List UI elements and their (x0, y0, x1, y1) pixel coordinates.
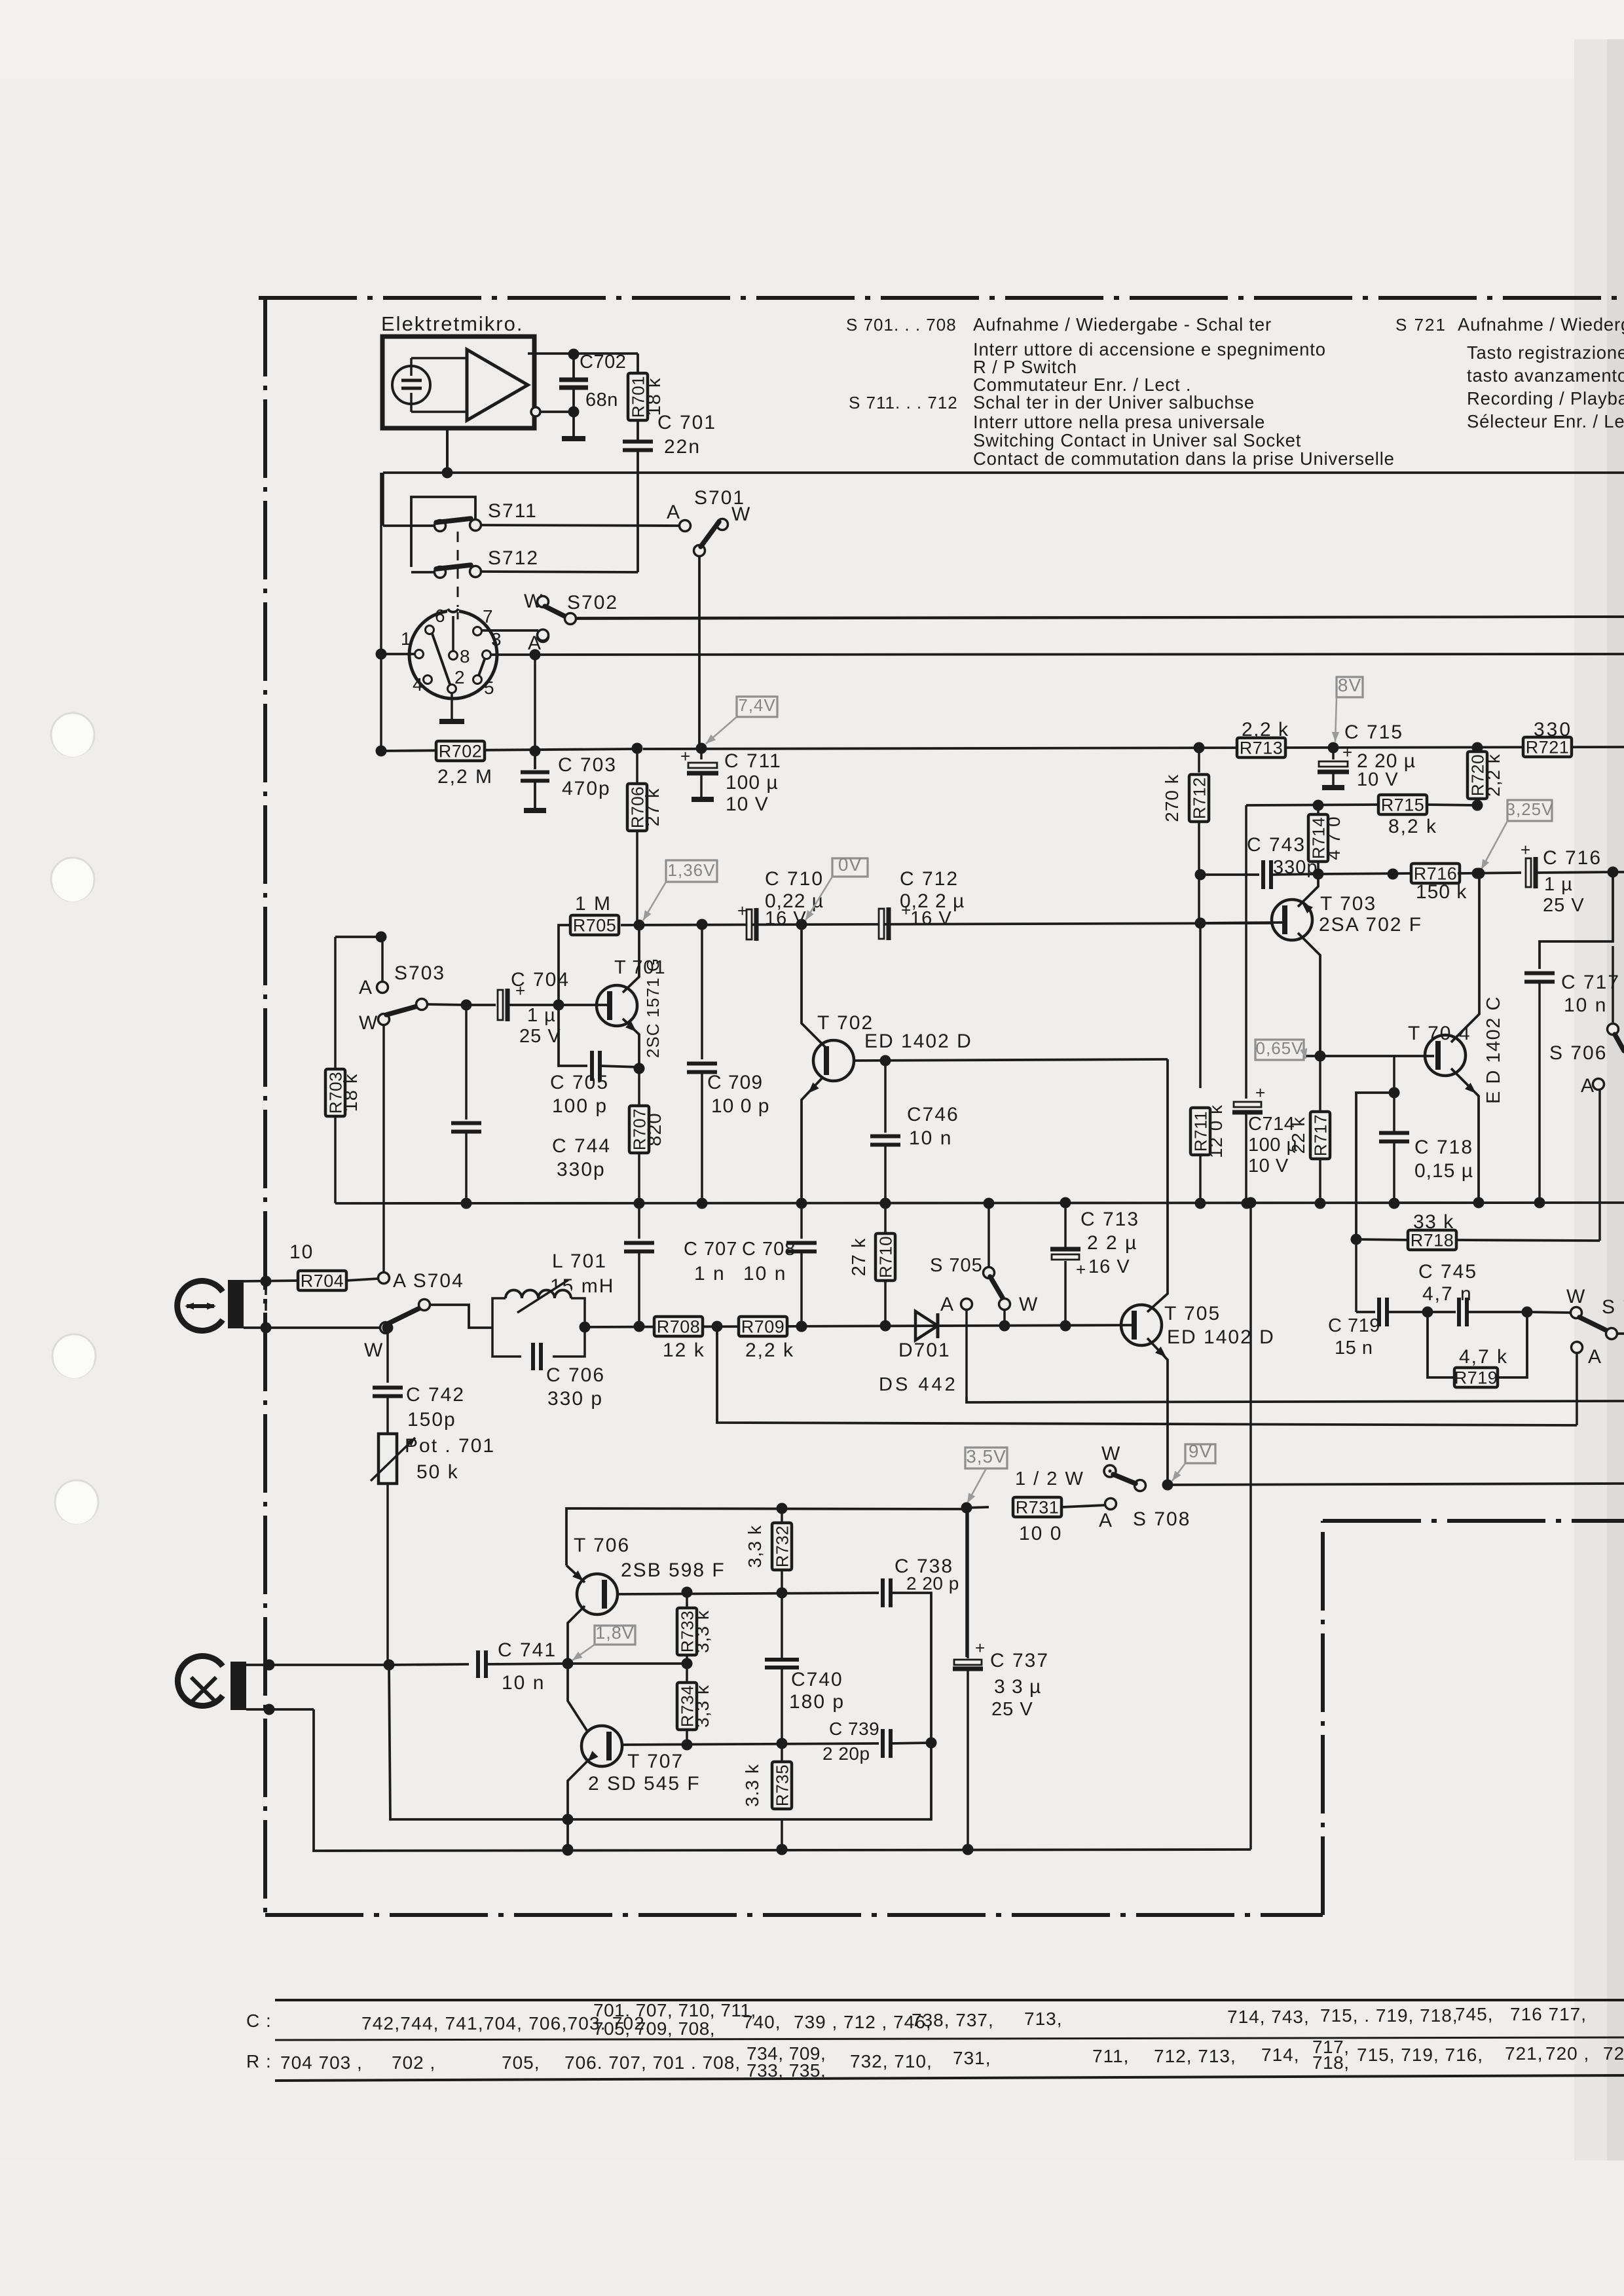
wire left rail (380, 473, 382, 751)
svg-text:C 701: C 701 (657, 412, 716, 433)
wire row to R716 (1318, 873, 1414, 874)
svg-text:D701: D701 (898, 1339, 951, 1361)
svg-text:2 2 µ: 2 2 µ (1087, 1232, 1137, 1254)
svg-text:270 k: 270 k (1162, 774, 1182, 822)
svg-text:150 k: 150 k (1416, 881, 1467, 903)
wire S703 to C704 (427, 1004, 466, 1005)
svg-text:1 M: 1 M (575, 893, 612, 915)
capacitor C718 (1393, 1056, 1395, 1091)
svg-text:738, 737,: 738, 737, (912, 2010, 994, 2030)
resistor R707 (638, 1068, 640, 1106)
DIN pin 8 (449, 651, 458, 660)
resistor R717 (1319, 1056, 1321, 1112)
T707 emitter (568, 1759, 589, 1846)
mechanical link S711-S712 (dashed) (457, 532, 459, 612)
resistor R706 (631, 748, 637, 750)
wire mid rail (335, 1203, 1624, 1203)
svg-text:S712: S712 (488, 547, 539, 569)
connector remote jack (177, 1281, 223, 1331)
svg-text:715, 719, 716,: 715, 719, 716, (1357, 2045, 1483, 2065)
wire mic output bottom (531, 407, 540, 416)
node 3,5V callout (965, 1448, 1007, 1468)
svg-text:Pot . 701: Pot . 701 (405, 1435, 495, 1457)
wire X tip (246, 1664, 390, 1666)
svg-text:ED 1402 D: ED 1402 D (864, 1030, 972, 1052)
capacitor C719 (1355, 1244, 1357, 1312)
node 1,8V callout (595, 1626, 635, 1645)
svg-text:10 n: 10 n (1564, 994, 1607, 1016)
svg-text:S 711. . . 712: S 711. . . 712 (849, 393, 958, 412)
T706 collector (568, 1606, 585, 1658)
wire mic output top (528, 352, 638, 355)
svg-text:10 0 p: 10 0 p (711, 1095, 769, 1117)
svg-text:705,: 705, (502, 2052, 540, 2073)
node 7,4V callout (737, 697, 777, 717)
DIN pin 7 (473, 627, 482, 636)
svg-text:712, 713,: 712, 713, (1154, 2046, 1236, 2066)
wire R705 left to base node (559, 925, 570, 1000)
resistor R715 row (1246, 805, 1380, 805)
svg-text:150p: 150p (407, 1409, 456, 1430)
svg-text:A: A (940, 1294, 955, 1315)
svg-text:A: A (359, 977, 373, 998)
svg-text:C 715: C 715 (1344, 721, 1403, 743)
svg-text:S703: S703 (394, 962, 445, 984)
wire 0,65V row (1303, 1055, 1434, 1057)
svg-text:C 703: C 703 (558, 754, 617, 776)
capacitor C711 (700, 748, 703, 759)
svg-text:C746: C746 (907, 1104, 959, 1125)
svg-text:10 V: 10 V (1357, 769, 1399, 790)
svg-text:C 716: C 716 (1543, 847, 1602, 869)
node 9V callout (1185, 1444, 1215, 1463)
svg-text:S 721: S 721 (1395, 315, 1447, 335)
svg-text:3,3 k: 3,3 k (692, 1610, 712, 1653)
T706 emitter (566, 1565, 585, 1582)
wire C716 row to right edge (1613, 871, 1624, 873)
wire 9V row (1168, 1484, 1624, 1485)
resistor R720 (1472, 742, 1483, 754)
switch S707 (1527, 1312, 1572, 1313)
svg-text:R719: R719 (1454, 1368, 1498, 1388)
svg-text:W: W (731, 503, 751, 525)
svg-text:22n: 22n (664, 436, 701, 458)
svg-text:R709: R709 (741, 1317, 785, 1337)
wire connector sleeve (244, 1326, 381, 1329)
svg-text:C714: C714 (1248, 1114, 1295, 1135)
svg-text:10 V: 10 V (1248, 1156, 1289, 1176)
svg-text:R702: R702 (439, 742, 483, 761)
svg-text:731,: 731, (953, 2048, 991, 2068)
svg-text:R731: R731 (1016, 1498, 1060, 1518)
svg-text:7: 7 (483, 606, 494, 627)
svg-text:8,2 k: 8,2 k (1388, 816, 1437, 837)
svg-text:C 719: C 719 (1328, 1315, 1380, 1336)
resistor R733 (682, 1587, 693, 1598)
wire S702 row (574, 617, 1624, 618)
svg-text:2SB 598 F: 2SB 598 F (621, 1559, 726, 1581)
connector X jack (177, 1656, 223, 1706)
svg-text:9V: 9V (1189, 1441, 1212, 1461)
svg-text:T 706: T 706 (574, 1535, 630, 1556)
svg-text:3 3 µ: 3 3 µ (994, 1676, 1041, 1698)
svg-text:100 µ: 100 µ (1248, 1135, 1298, 1156)
svg-text:718,: 718, (1312, 2052, 1350, 2073)
svg-text:4: 4 (413, 674, 424, 695)
svg-text:733, 735,: 733, 735, (747, 2060, 826, 2081)
svg-text:S 705: S 705 (930, 1255, 983, 1276)
svg-text:3.3 k: 3.3 k (742, 1764, 762, 1807)
svg-text:C 741: C 741 (498, 1639, 557, 1661)
T706/T707 base coupling (568, 1669, 588, 1732)
svg-text:A: A (1099, 1510, 1113, 1531)
capacitor C716 (1526, 858, 1531, 887)
svg-text:8: 8 (460, 646, 471, 666)
svg-text:A: A (667, 501, 681, 523)
svg-text:R :: R : (246, 2051, 272, 2071)
T704 emitter (1451, 1068, 1479, 1198)
mech link dashed to socket (457, 612, 459, 619)
capacitor C712 (879, 909, 884, 939)
capacitor C746 (884, 1061, 887, 1133)
wire R712 to R711 (1199, 923, 1202, 1088)
svg-text:Aufnahme / Wiedergabe - Schal: Aufnahme / Wiedergabe - Schal ter (973, 314, 1272, 335)
svg-text:C 705: C 705 (550, 1072, 609, 1093)
svg-text:1 µ: 1 µ (527, 1005, 556, 1026)
DIN pin 2 (448, 685, 456, 693)
svg-text:15 n: 15 n (1335, 1338, 1373, 1358)
svg-text:C 712: C 712 (900, 868, 959, 890)
svg-text:+: + (1076, 1260, 1086, 1279)
svg-text:330p: 330p (557, 1159, 606, 1180)
svg-text:721,: 721, (1505, 2043, 1543, 2064)
wire T701 base (564, 1004, 610, 1006)
DIN switch blade 6-2 (432, 634, 450, 684)
svg-text:10 n: 10 n (743, 1263, 786, 1285)
svg-text:2 20 p: 2 20 p (906, 1573, 959, 1594)
T705 collector (1147, 1285, 1168, 1312)
svg-text:12 k: 12 k (663, 1339, 705, 1361)
DIN pin 5 (473, 676, 482, 684)
resistor R714 (1313, 800, 1324, 811)
svg-text:Switching Contact in Univer s: Switching Contact in Univer sal Socket (973, 430, 1301, 450)
svg-text:25 V: 25 V (1543, 895, 1585, 916)
diode D701 (915, 1311, 938, 1340)
svg-text:720 ,: 720 , (1545, 2043, 1589, 2064)
svg-text:1,8V: 1,8V (595, 1623, 635, 1643)
svg-text:10 n: 10 n (502, 1672, 545, 1694)
node 0V callout (832, 858, 868, 877)
svg-text:C 742: C 742 (406, 1384, 465, 1406)
svg-text:S 708: S 708 (1133, 1508, 1190, 1530)
potentiometer Pot 701 (378, 1434, 397, 1484)
svg-text:4 7 0: 4 7 0 (1323, 816, 1344, 860)
node 0,65V callout (1255, 1040, 1304, 1060)
wire S711-S712 link loop (411, 497, 475, 567)
resistor R710 (880, 1198, 891, 1209)
svg-text:1 / 2 W: 1 / 2 W (1015, 1468, 1084, 1489)
wire 1,8V row (568, 1662, 687, 1665)
svg-text:C 711: C 711 (724, 750, 782, 772)
svg-text:2 SD 545 F: 2 SD 545 F (588, 1773, 701, 1795)
svg-text:Recording / Playback /: Recording / Playback / (1467, 388, 1624, 409)
svg-text:Tasto registrazione / t: Tasto registrazione / t (1467, 342, 1624, 363)
svg-text:C740: C740 (791, 1669, 843, 1690)
resistor R711 (1190, 1108, 1210, 1155)
capacitor C707 (638, 1203, 640, 1239)
svg-text:470p: 470p (562, 778, 611, 799)
svg-text:330p: 330p (1273, 857, 1318, 878)
svg-text:+: + (1342, 742, 1352, 762)
svg-text:72: 72 (1603, 2043, 1624, 2064)
svg-text:1: 1 (401, 629, 412, 649)
capacitor C703 (534, 751, 536, 769)
svg-text:0,15 µ: 0,15 µ (1414, 1160, 1473, 1182)
svg-text:R705: R705 (573, 916, 617, 936)
wire DIN pin7 to A terminal (482, 629, 538, 632)
svg-text:713,: 713, (1024, 2009, 1063, 2029)
resistor R703 (334, 937, 337, 1069)
svg-text:0,65V: 0,65V (1256, 1038, 1304, 1058)
svg-text:2,2 k: 2,2 k (745, 1339, 794, 1361)
svg-text:L 701: L 701 (552, 1250, 607, 1272)
svg-text:7,4V: 7,4V (738, 695, 776, 715)
svg-text:3: 3 (491, 629, 502, 649)
wire T702 collector to T705 (1166, 1059, 1169, 1285)
resistor R734 (686, 1664, 688, 1683)
T701 collector (623, 930, 639, 993)
svg-text:6: 6 (435, 606, 446, 626)
wire D701 row (585, 1325, 1135, 1327)
wire X sleeve (246, 1708, 314, 1711)
DIN switch blade 3-5 (479, 659, 485, 676)
resistor R719 bypass (1428, 1312, 1455, 1377)
svg-text:Elektretmikro.: Elektretmikro. (381, 312, 523, 335)
svg-text:R716: R716 (1414, 864, 1458, 884)
wire S711 to S701 (481, 525, 680, 526)
svg-text:2,2 M: 2,2 M (437, 766, 493, 788)
svg-text:+: + (737, 901, 747, 920)
DIN pin2 ground (451, 693, 453, 720)
svg-text:W: W (1101, 1443, 1121, 1465)
wire DIN pin3 to R702 row (534, 655, 536, 751)
capacitor C714 (1234, 1102, 1261, 1107)
svg-text:+: + (975, 1638, 985, 1658)
svg-text:W: W (1019, 1294, 1039, 1315)
wire R735 bottom to rail (781, 1819, 783, 1850)
node 3,25V callout (1507, 800, 1552, 821)
svg-text:C 710: C 710 (765, 868, 824, 890)
svg-text:745,: 745, (1455, 2004, 1494, 2024)
component index table (275, 1999, 1624, 2001)
capacitor C717 (1540, 872, 1613, 969)
svg-text:704 703 ,: 704 703 , (280, 2052, 363, 2073)
DIN pin 1 (415, 650, 424, 659)
capacitor C740 (781, 1593, 783, 1659)
svg-text:702 ,: 702 , (392, 2052, 435, 2073)
wire S701 to 8V row (698, 556, 701, 748)
svg-text:740,: 740, (743, 2012, 781, 2032)
wire oscillator top rail (965, 1513, 968, 1657)
svg-text:180 p: 180 p (789, 1691, 845, 1713)
svg-text:S702: S702 (567, 592, 618, 613)
svg-text:T 707: T 707 (627, 1751, 684, 1772)
svg-text:R704: R704 (301, 1271, 344, 1291)
node 8V callout (1337, 677, 1363, 697)
svg-text:705, 709, 708,: 705, 709, 708, (593, 2018, 715, 2039)
svg-text:DS 442: DS 442 (879, 1374, 958, 1395)
svg-text:50 k: 50 k (416, 1461, 459, 1483)
capacitor C706 (521, 1343, 553, 1370)
svg-text:100 µ: 100 µ (726, 772, 779, 793)
capacitor C701 (623, 440, 653, 444)
T703 emitter (1298, 879, 1318, 907)
svg-text:C :: C : (246, 2011, 272, 2031)
svg-text:5: 5 (484, 678, 495, 698)
wire C743/R716 row (1200, 873, 1248, 876)
svg-text:R713: R713 (1240, 738, 1283, 758)
svg-text:18 k: 18 k (644, 378, 665, 416)
svg-text:+: + (680, 746, 690, 766)
svg-text:12 0 k: 12 0 k (1206, 1104, 1226, 1158)
resistor R716 (1411, 864, 1460, 883)
svg-text:C 713: C 713 (1080, 1209, 1139, 1230)
capacitor C713 (1060, 1197, 1071, 1209)
svg-text:R732: R732 (773, 1525, 792, 1567)
svg-text:27 k: 27 k (642, 788, 663, 827)
svg-text:S 706: S 706 (1549, 1042, 1607, 1064)
T705 emitter (1147, 1338, 1168, 1485)
svg-text:732, 710,: 732, 710, (850, 2051, 932, 2071)
svg-text:T 705: T 705 (1164, 1303, 1221, 1324)
svg-text:2,2 k: 2,2 k (1483, 754, 1504, 797)
svg-text:25 V: 25 V (519, 1026, 561, 1047)
resistors R708 R709 row (654, 1317, 703, 1336)
capacitor C710 (747, 909, 752, 939)
capacitor C708 (800, 1203, 803, 1239)
DIN pin 3 (483, 651, 491, 659)
DIN universal socket (409, 611, 497, 699)
svg-text:tasto avanzamento v: tasto avanzamento v (1467, 365, 1624, 386)
svg-text:2: 2 (454, 667, 466, 687)
svg-text:R715: R715 (1381, 795, 1425, 815)
svg-text:R712: R712 (1190, 777, 1209, 819)
svg-text:S 7: S 7 (1602, 1296, 1624, 1318)
svg-text:C 707: C 707 (684, 1239, 737, 1260)
svg-text:R721: R721 (1526, 738, 1570, 757)
wire DIN pin1 to left rail (381, 653, 415, 655)
svg-text:10 0: 10 0 (1019, 1523, 1062, 1544)
wire main bus (mic supply rail) (383, 471, 1624, 474)
svg-text:C 737: C 737 (990, 1650, 1049, 1671)
svg-text:716 717,: 716 717, (1510, 2004, 1587, 2024)
svg-text:R710: R710 (876, 1236, 896, 1278)
svg-text:C 739: C 739 (829, 1719, 879, 1739)
svg-text:714, 743,: 714, 743, (1227, 2007, 1310, 2027)
svg-text:706. 707, 701 . 708,: 706. 707, 701 . 708, (564, 2052, 741, 2073)
capacitor C705 (559, 1010, 587, 1066)
T704 collector (1451, 878, 1479, 1042)
svg-text:R708: R708 (657, 1317, 701, 1337)
svg-text:1 n: 1 n (694, 1263, 726, 1285)
svg-text:C 718: C 718 (1414, 1137, 1473, 1158)
resistor R702 (436, 741, 485, 761)
wire S712 row to C701 (481, 572, 638, 572)
svg-text:27 k: 27 k (849, 1238, 870, 1277)
svg-text:C 708: C 708 (742, 1239, 796, 1260)
svg-text:18 k: 18 k (341, 1074, 361, 1112)
wire S707 A vertical (1576, 1353, 1578, 1425)
svg-text:820: 820 (644, 1112, 665, 1146)
svg-text:10 n: 10 n (909, 1127, 952, 1149)
svg-text:715, . 719, 718,: 715, . 719, 718, (1320, 2005, 1458, 2026)
wire jog to R703 (335, 936, 381, 938)
wire R715 left to C714 (1245, 805, 1247, 1099)
wire 8V supply row (R702/R713/R721) (381, 749, 631, 751)
svg-text:701. 707, 710, 711,: 701. 707, 710, 711, (593, 2000, 756, 2020)
svg-text:Schal ter in der Univer salb: Schal ter in der Univer salbuchse (973, 392, 1255, 412)
svg-text:3,5V: 3,5V (966, 1446, 1006, 1467)
svg-text:W: W (1566, 1286, 1586, 1307)
wire S703 W down to S704 (382, 1025, 385, 1273)
svg-text:3,25V: 3,25V (1506, 799, 1554, 819)
wire T701 base / C710-C712 row (621, 923, 1271, 925)
wire S706 A to R718 (1598, 1089, 1601, 1241)
svg-text:C 704: C 704 (511, 969, 570, 991)
T703 base wire (1200, 922, 1285, 923)
wire S705 A to 2140 row (967, 1397, 1624, 1402)
svg-text:R735: R735 (773, 1764, 792, 1806)
wire DIN pin3 signal row (540, 654, 1624, 655)
svg-text:A S704: A S704 (393, 1270, 464, 1292)
svg-text:330 p: 330 p (547, 1388, 603, 1410)
mech link on frame (265, 1286, 267, 1324)
T703 collector (1298, 933, 1320, 1051)
svg-text:711,: 711, (1092, 2046, 1129, 2066)
svg-text:25 V: 25 V (991, 1699, 1033, 1720)
capacitor C702 (572, 354, 575, 380)
svg-text:ED 1402 D: ED 1402 D (1167, 1326, 1275, 1348)
T702 emitter (802, 1078, 822, 1198)
wire DIN pin3 right (491, 653, 540, 656)
capacitor C709 (697, 919, 708, 930)
node 1,36V callout (666, 860, 717, 882)
svg-text:0V: 0V (838, 854, 862, 875)
svg-text:10 V: 10 V (726, 793, 769, 815)
svg-text:1,36V: 1,36V (668, 860, 716, 880)
T706 base row (618, 1593, 877, 1594)
svg-text:T 703: T 703 (1320, 893, 1376, 915)
svg-text:16 V: 16 V (910, 908, 952, 929)
svg-text:100 p: 100 p (552, 1095, 608, 1117)
wire mic box bottom to bus (446, 428, 449, 473)
svg-text:C 745: C 745 (1418, 1261, 1477, 1283)
svg-text:3,3 k: 3,3 k (692, 1685, 712, 1728)
svg-text:W: W (359, 1012, 378, 1034)
wire block bottom return (782, 1743, 931, 1819)
capacitor C744 (465, 1005, 468, 1120)
svg-text:S 701. . . 708: S 701. . . 708 (846, 315, 957, 335)
svg-text:Interr uttore nella presa u: Interr uttore nella presa universale (973, 412, 1265, 432)
wire connector tip (244, 1281, 301, 1281)
svg-text:C 717: C 717 (1561, 972, 1620, 993)
resistor R701 (637, 354, 639, 373)
svg-text:R718: R718 (1411, 1231, 1454, 1250)
wire pot bottom to ground return (389, 1665, 568, 1819)
svg-text:1 µ: 1 µ (1544, 874, 1573, 895)
svg-text:C 743: C 743 (1247, 834, 1306, 856)
svg-text:+: + (1521, 840, 1530, 860)
